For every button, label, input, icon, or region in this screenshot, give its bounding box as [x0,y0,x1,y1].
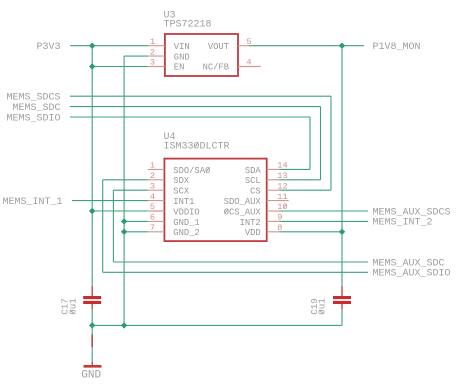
capacitor C19 plates [333,296,351,299]
slashed zero of C19 value 0u1 [319,310,324,314]
wire VDDIO to P3V3 vertical [92,210,148,212]
ground symbol lead (red) [91,335,93,348]
capacitor C17 top lead [91,286,93,297]
slashed zero of ISM330DLCTR [194,142,198,147]
U3 pin 5 VOUT lead [238,45,249,47]
wire MEMS_SDCS to U4 pin12 [280,189,332,191]
capacitor C17 bottom lead [91,304,93,309]
svg-text:VIN: VIN [174,42,190,52]
wire P1V8 vertical to C19 [341,46,343,286]
U4 pin 14 SDA lead [267,168,280,170]
slashed zero of C17 value 0u1 [70,310,75,314]
wire MEMS_INT_1 to U4 pin4 [72,200,148,202]
U4 pin 5 VDDIO lead [148,210,165,212]
ground symbol bar [84,365,102,368]
svg-text:1: 1 [150,37,155,47]
svg-text:TPS72218: TPS72218 [164,19,212,30]
slashed zero of OCS_AUX [225,209,229,214]
svg-text:6: 6 [150,213,155,223]
svg-text:MEMS_AUX_SDC: MEMS_AUX_SDC [373,258,445,269]
wire SCX to MEMS_AUX_SDC (left + riser) [113,189,147,191]
U4 pin 4 INT1 lead [148,200,165,202]
U4 pin 2 SDX lead [148,179,165,181]
U4 pin 9 INT2 lead [267,220,280,222]
wire MEMS_SDC riser [320,107,322,180]
wire P3V3 vertical rail to C17 [91,46,93,286]
IC U4 ISM330DLCTR body [164,159,266,242]
U4 pin 7 GND_2 lead [148,231,165,233]
svg-text:1: 1 [150,161,155,171]
U4 pin 13 SCL lead [267,179,280,181]
svg-text:SDO_AUX: SDO_AUX [224,197,262,207]
svg-text:MEMS_SDCS: MEMS_SDCS [6,93,60,104]
junction GND_1 tee [121,218,127,224]
junction VDD tee [339,229,345,235]
svg-text:ISM330DLCTR: ISM330DLCTR [164,142,230,153]
slashed zero of SDO/SA0 [206,167,210,172]
capacitor C17 plates [83,296,101,299]
svg-text:OCS_AUX: OCS_AUX [224,207,262,217]
svg-text:P3V3: P3V3 [36,42,60,53]
wire MEMS_AUX_SDC horizontal [113,261,368,263]
svg-text:4: 4 [150,192,155,202]
svg-text:INT2: INT2 [240,218,261,228]
svg-text:MEMS_AUX_SDCS: MEMS_AUX_SDCS [373,207,451,218]
svg-text:3: 3 [150,58,155,68]
U4 pin 1 SDO/SA0 lead [148,168,165,170]
svg-text:GND: GND [174,52,190,62]
svg-text:2: 2 [150,47,155,57]
svg-text:14: 14 [277,161,287,171]
svg-text:5: 5 [150,202,155,212]
svg-text:12: 12 [277,181,287,191]
U4 pin 3 SCX lead [148,189,165,191]
wire GND stub lower [91,347,93,362]
junction P3V3 / vertical [89,43,95,49]
svg-text:MEMS_AUX_SDIO: MEMS_AUX_SDIO [373,269,451,280]
wire MEMS_SDIO to U4 pin14 [280,168,311,170]
wire MEMS_SDIO horizontal [70,116,310,118]
wire GND vertical rail [123,56,125,325]
capacitor C19 top lead [341,286,343,297]
wire OCS_AUX to MEMS_AUX_SDCS label [280,210,369,212]
junction VDDIO tee [89,208,95,214]
svg-text:2: 2 [150,171,155,181]
svg-text:3: 3 [150,181,155,191]
wire GND_1 to GND vertical [124,220,148,222]
wire GND rail bottom [92,324,342,326]
junction GND rail / C17 [89,322,95,328]
svg-text:GND: GND [81,369,101,381]
U4 pin 8 VDD lead [267,231,280,233]
svg-text:SDA: SDA [245,166,262,176]
junction GND_2 tee [121,229,127,235]
svg-text:VDD: VDD [245,228,261,238]
U4 pin 11 SDO_AUX lead (unconnected) [267,200,289,202]
svg-text:SDO/SA0: SDO/SA0 [173,166,210,176]
U3 pin 2 GND lead [148,55,165,57]
U4 pin 10 OCS_AUX lead [267,210,280,212]
svg-text:4: 4 [246,58,251,68]
wire U3 GND pin2 to GND vertical [124,55,148,57]
slashed zero of pin number 10 [283,204,286,209]
svg-text:SCL: SCL [245,176,261,186]
svg-text:11: 11 [277,192,287,202]
U3 pin 4 NC/FB lead [238,66,261,68]
junction EN tee [89,63,95,69]
wire C17 to GND rail [91,309,93,325]
wire INT2 to MEMS_INT_2 label [280,220,369,222]
svg-text:SCX: SCX [173,187,190,197]
svg-text:CS: CS [250,187,261,197]
svg-text:MEMS_SDC: MEMS_SDC [12,103,60,114]
svg-text:P1V8_MON: P1V8_MON [373,42,421,53]
svg-text:INT1: INT1 [173,197,194,207]
wire SDX to MEMS_AUX_SDIO (left + riser) [103,179,148,181]
wire MEMS_AUX_SDIO horizontal [103,271,368,273]
svg-text:MEMS_SDIO: MEMS_SDIO [6,113,60,124]
wire MEMS_SDCS horizontal [70,95,331,97]
svg-text:13: 13 [277,171,287,181]
wire C19 to GND rail [341,309,343,325]
junction P1V8 vertical [339,43,345,49]
svg-text:7: 7 [150,223,155,233]
wire MEMS_SDIO riser [309,117,311,169]
wire VDD to P1V8 vertical [280,231,343,233]
svg-text:GND_2: GND_2 [173,228,199,238]
junction GND rail / GND vertical [121,322,127,328]
wire GND stub upper [91,325,93,334]
U4 pin 6 GND_1 lead [148,220,165,222]
wire MEMS_SDCS riser [330,96,332,190]
U3 pin 3 EN lead [148,66,165,68]
svg-text:SDX: SDX [173,176,190,186]
svg-text:EN: EN [174,63,185,73]
wire EN tee to U3 pin3 [92,66,148,68]
ground symbol stub [91,362,93,366]
U4 pin 12 CS lead [267,189,280,191]
wire MEMS_SDC horizontal [70,106,321,108]
wire VOUT to P1V8_MON [249,45,364,47]
svg-text:NC/FB: NC/FB [203,63,229,73]
capacitor C19 bottom lead [341,304,343,309]
wire P3V3 to U3 VIN [70,45,148,47]
IC U3 TPS72218 body [165,34,238,76]
svg-text:VOUT: VOUT [208,42,229,52]
svg-text:GND_1: GND_1 [173,218,199,228]
wire GND_2 to GND vertical [124,231,148,233]
U3 pin 1 VIN lead [148,45,165,47]
svg-text:MEMS_INT_1: MEMS_INT_1 [2,197,62,208]
wire MEMS_SDC to U4 pin13 [280,179,321,181]
svg-text:VDDIO: VDDIO [173,207,199,217]
svg-text:MEMS_INT_2: MEMS_INT_2 [373,218,433,229]
